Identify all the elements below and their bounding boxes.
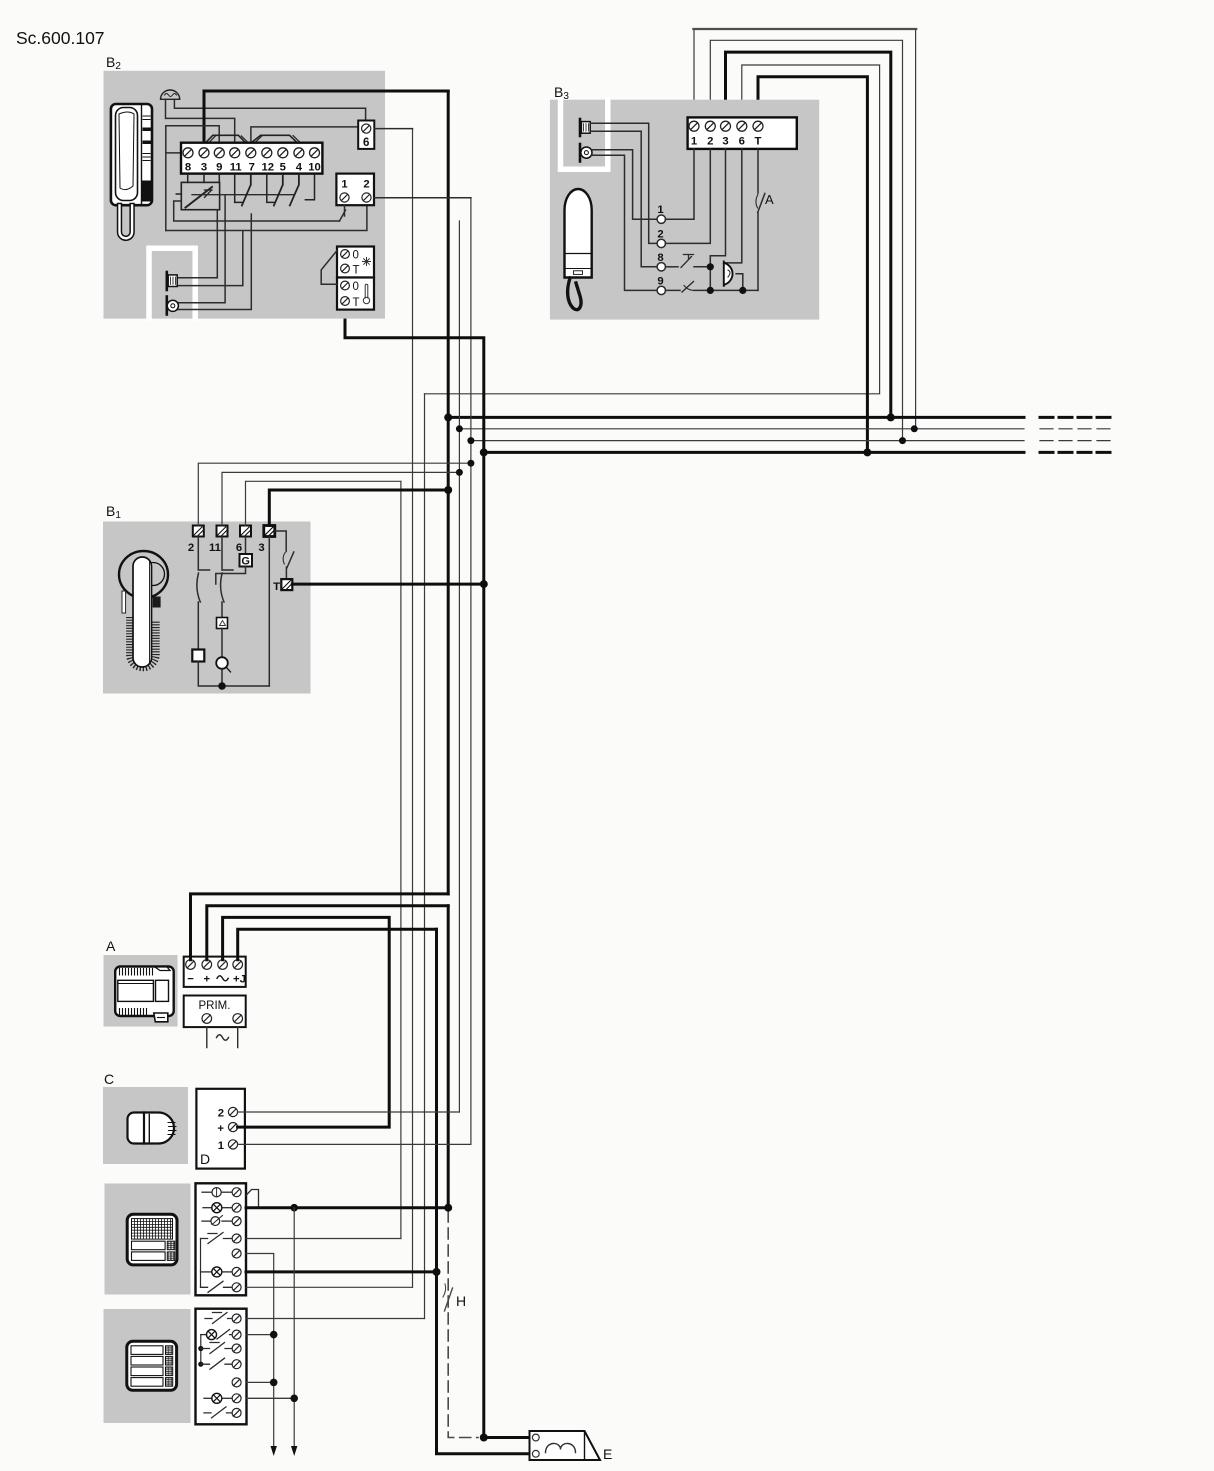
wire link from row2 node down to panel2 and arrow — [293, 1208, 295, 1447]
switch blade 4 of B1 — [286, 552, 293, 579]
strip screws — [183, 148, 320, 158]
wire D terminal 2 to riser — [238, 1111, 460, 1113]
svg-text:2: 2 — [707, 136, 713, 148]
wire 1-2 box terminal 2 right to riser — [374, 197, 471, 199]
svg-text:3: 3 — [201, 162, 207, 174]
switch H blade on dashed wire — [445, 1288, 453, 1311]
microphone box of B1 — [217, 618, 228, 629]
wire common rail from contact box to switch under 1-2 box — [174, 201, 340, 221]
link hump over strip terminals 3..11 — [206, 135, 246, 143]
wire from contact box bottom down to connector plug (square) top — [177, 210, 217, 278]
buzzer in B2 — [161, 90, 180, 99]
thick wire B1 T to lock-release riser — [292, 583, 484, 586]
wire B1 terminal2 up to riser — [198, 463, 471, 525]
screws of panel 1 rows — [232, 1188, 241, 1292]
connector plug (square) in B3 — [580, 119, 590, 136]
svg-text:T: T — [755, 136, 762, 148]
PRIM primary box of A — [184, 996, 246, 1028]
svg-text:3: 3 — [258, 542, 264, 554]
entrance panel 2 block background — [104, 1309, 191, 1423]
wire panel1 row4 to riser — [246, 1238, 401, 1240]
svg-text:+: + — [203, 974, 210, 986]
call button square of B1 — [192, 650, 204, 662]
1-2 terminal box of B2 — [336, 174, 374, 206]
wire panel2 row5 to link wire — [247, 1381, 274, 1383]
svg-text:11: 11 — [230, 162, 242, 174]
node dot dashed H joins lock wire — [480, 1434, 488, 1442]
wire B1 terminal11 up to riser — [222, 472, 459, 525]
handset cord of B2 phone — [120, 206, 133, 239]
right branch of B1: terminal 3 down — [268, 537, 270, 687]
middle contact branch of B1 (terminal 11) — [221, 537, 233, 618]
contact pair under terminals 11-7 — [235, 175, 251, 206]
lock release net (thick): B2 0/T box down to lock E upper terminal — [345, 310, 530, 1438]
node dot bottom rail of B1 — [218, 682, 226, 690]
row2 lamp+switch symbol with link rail — [200, 1335, 202, 1365]
entrance panel 1 block background — [105, 1184, 191, 1295]
row1 microphone symbol — [202, 1191, 212, 1193]
wire side rail to square connector bottom and 1-2 box terminal 2 — [166, 205, 367, 285]
svg-text:8: 8 — [185, 162, 191, 174]
node dot terminal3 riser — [444, 486, 452, 494]
entrance panel 1 icon — [127, 1214, 177, 1265]
wire B3 terminal2 to riser bus line 3 — [710, 40, 902, 440]
intercom phone B1 block background — [103, 522, 311, 694]
switch blade from common rail to 1-2 box terminal 1 — [340, 205, 346, 221]
wire square connector top to contact 2 — [590, 123, 657, 243]
svg-text:0: 0 — [353, 250, 359, 262]
svg-text:1: 1 — [218, 1140, 224, 1152]
node bus2 left end — [456, 425, 463, 432]
entrance panel 2 terminal box — [196, 1309, 247, 1425]
door station B3 block background — [550, 100, 819, 320]
wire panel1 row5 down to panel2 and arrow — [246, 1254, 274, 1448]
svg-text:6: 6 — [739, 136, 745, 148]
wire panel1 row7 to riser — [246, 1286, 413, 1288]
vertical from B2 wire y221 down to relay D terminal 2 — [458, 221, 460, 1112]
svg-text:E: E — [603, 1446, 612, 1462]
arrow continuation down-right — [291, 1446, 297, 1456]
wire B1 terminal6 up to riser corner — [246, 481, 401, 525]
lamp symbol beside upper 0/T box — [363, 258, 371, 266]
wire A terminal ac to relay D plus (thick) — [223, 917, 390, 1127]
node dot contact8/terminal3 — [707, 263, 714, 270]
wire strip terminal 7 up and right to 6-terminal box — [251, 127, 358, 143]
row7 switch symbol — [204, 1407, 232, 1418]
wire strip left row (terminal 8) to side rail — [166, 152, 181, 154]
row4 switch symbol with link rail — [200, 1239, 202, 1288]
svg-text:G: G — [241, 556, 250, 568]
svg-text:T: T — [273, 581, 280, 593]
switch A arc mark — [756, 195, 758, 209]
power supply unit icon — [115, 967, 174, 1022]
svg-text:2: 2 — [363, 179, 369, 191]
node bus4/B3-T — [863, 448, 871, 456]
relay D terminal box — [196, 1089, 245, 1169]
row4 switch symbol — [198, 1362, 203, 1367]
row6 lamp symbol — [201, 1271, 212, 1273]
dashed optional wire H from node at panel row 2 down to lock E — [448, 1211, 478, 1438]
node dot T riser — [480, 580, 488, 588]
svg-text:A: A — [106, 938, 116, 954]
wire A terminal plus to lower riser (thick) — [207, 906, 448, 960]
wire net 3 (thick): B2 terminal 3 riser down to A terminal minus — [447, 91, 450, 894]
wire B3 terminal6 over top, down and left along y=393.8 — [425, 65, 880, 394]
vertical from B2 1-2 box terminal 2 down to relay D terminal 1 — [470, 198, 472, 1145]
node dot row5/link — [270, 1379, 278, 1387]
arrow continuation down-left — [271, 1446, 277, 1456]
hatched terminal 2 of B1 — [193, 526, 204, 537]
wire 6-terminal box right to riser — [374, 128, 412, 130]
wire panel2 row2 to link wire — [247, 1334, 274, 1336]
movable-contact rail under strip — [192, 194, 294, 196]
connector jack (circle) in B2 — [167, 297, 179, 315]
row1 switch symbol — [205, 1313, 232, 1324]
earpiece lamp circle of B1 — [216, 657, 228, 669]
wire buzzer right to 6-terminal box top — [174, 99, 365, 120]
entrance panel 1 terminal box — [196, 1183, 247, 1295]
svg-text:A: A — [765, 192, 774, 207]
node contact 9 with switch of B3 — [657, 276, 758, 295]
riser bus line 4 continuation dashes — [1040, 451, 1113, 454]
svg-text:10: 10 — [308, 162, 321, 174]
wire buzzer to contact 9 line — [736, 274, 743, 291]
node bus1/B3-3 — [887, 413, 895, 421]
lock coil symbol — [546, 1443, 576, 1452]
wire +J supply: A terminal +J down to lock E lower terminal (thick) — [437, 929, 531, 1454]
wire B3 terminal1 to riser bus line 2 — [694, 29, 916, 428]
node dot contact9/terminal3 — [707, 287, 714, 294]
wire A terminal plus down to panel 1 row 2 (thick) — [447, 906, 450, 1208]
power supply A block background — [104, 955, 178, 1027]
wire D terminal 1 to riser — [238, 1143, 471, 1145]
svg-text:1: 1 — [691, 136, 697, 148]
wire panel2 row1 to riser — [247, 1318, 425, 1320]
monitor station B2 block background — [104, 71, 386, 319]
node contact 8 with switch of B3 — [657, 252, 710, 271]
wire strip terminal 9 up, left and down the side — [166, 126, 219, 231]
wire panel1 row2 to supply riser (thick) — [246, 1206, 448, 1209]
secondary terminal box of A — [184, 957, 246, 987]
wire panel2 row6 to link wire — [247, 1397, 295, 1399]
svg-text:C: C — [104, 1071, 114, 1087]
wire circle connector bottom to contact 9 — [592, 155, 657, 290]
svg-text:2: 2 — [188, 542, 194, 554]
node bus1/net3 — [444, 413, 452, 421]
coiled cord of B1 handset — [131, 617, 156, 667]
svg-text:1: 1 — [341, 179, 347, 191]
left contact branch of B1 (terminal 2) — [197, 537, 210, 650]
wall handset icon in B2 — [111, 104, 152, 238]
wire A terminal +J to lock riser (thick) — [238, 929, 437, 959]
wire B3 terminalT to riser bus line 4 (thick) — [758, 77, 867, 453]
relay module icon in C — [128, 1113, 177, 1144]
svg-text:0: 0 — [353, 281, 359, 293]
entrance panel 2 icon (4 call buttons) — [127, 1341, 177, 1390]
node dot row6/+J — [433, 1268, 441, 1276]
wire buzzer left to strip terminal 11 — [166, 99, 235, 143]
svg-text:9: 9 — [216, 162, 222, 174]
row3 speaker symbol — [202, 1220, 211, 1222]
wire B3 terminal T down with switch A to contact 9 line — [758, 149, 765, 291]
riser bus line 3 — [471, 440, 1024, 442]
node dot terminal11 riser — [456, 469, 463, 476]
svg-text:T: T — [353, 265, 360, 277]
row2 lamp symbol — [203, 1207, 212, 1209]
svg-text:6: 6 — [363, 137, 369, 149]
riser bus line 2 continuation dashes — [1040, 428, 1113, 430]
riser bus line 3 continuation dashes — [1040, 440, 1113, 442]
svg-text:6: 6 — [236, 542, 242, 554]
changeover hook between 0/T boxes — [321, 251, 337, 285]
row3 switch symbol — [198, 1346, 203, 1351]
svg-text:7: 7 — [249, 162, 255, 174]
wire circle connector top to contact 1 — [592, 150, 657, 219]
contact pair under terminals 4-10 — [290, 175, 315, 206]
wire B3 terminal 3 to contacts 8/9 — [710, 149, 725, 291]
row7 switch symbol — [201, 1281, 233, 1292]
wire B1 terminal3 up to riser (thick) — [269, 490, 448, 526]
svg-text:T: T — [353, 297, 360, 309]
node contact 2 of B3 — [657, 149, 710, 248]
wire from rail down to connector jack (circle) top — [177, 195, 225, 303]
node dot buzzer/contact9 — [739, 287, 746, 294]
svg-text:−: − — [187, 974, 194, 986]
node bus3/B3-2 — [899, 437, 906, 444]
hatched terminal T of B1 — [281, 579, 292, 590]
terminal strip of B3 — [688, 117, 797, 148]
handset icon of B1 — [119, 551, 168, 667]
svg-text:+: + — [217, 1123, 224, 1135]
svg-text:H: H — [456, 1293, 466, 1309]
row6 lamp symbol — [204, 1397, 212, 1399]
hatched terminal 3 of B1 (thick) — [264, 526, 275, 537]
row1 jumper hook to row2 — [246, 1190, 259, 1208]
vertical from B1 terminal 6 down to entrance panel 1 row 4 — [400, 481, 402, 1238]
connector plug (square) in B2 — [167, 272, 177, 290]
terminal strip of B2 — [181, 143, 322, 174]
mains leads below PRIM — [207, 1027, 238, 1047]
wire from contact under 7 down to connector jack (circle) bottom — [177, 214, 251, 310]
0/T switch box lower (heating) of B2 — [337, 278, 374, 310]
link hump over strip terminals 7..4 — [251, 135, 297, 143]
node dot row2/link — [270, 1331, 278, 1339]
node bus4 left corner — [480, 448, 488, 456]
riser bus line 2 — [459, 428, 1024, 430]
wire terminal 3 right to T contact — [275, 531, 286, 552]
svg-text:5: 5 — [280, 162, 286, 174]
vertical from B3 terminal6 line down to entrance panel 2 row 1 — [424, 394, 426, 1319]
node bus3 left end — [467, 437, 474, 444]
handset hook loop — [568, 278, 581, 310]
white channel mark in B3 — [561, 100, 608, 170]
relay C block background — [103, 1087, 188, 1164]
svg-text:PRIM.: PRIM. — [199, 1000, 231, 1012]
0/T switch box upper (light) of B2 — [337, 247, 374, 278]
svg-text:1: 1 — [657, 204, 663, 216]
svg-text:12: 12 — [262, 162, 275, 174]
svg-text:+J: +J — [233, 974, 246, 986]
svg-text:Sc.600.107: Sc.600.107 — [16, 28, 105, 48]
6-terminal box of B2 — [358, 121, 374, 149]
hatched terminal 11 of B1 — [217, 526, 228, 537]
node bus2/B3-1 — [911, 425, 918, 432]
node contact 1 of B3 — [657, 149, 694, 224]
riser bus line 4 (thick) — [484, 451, 1024, 454]
screws of panel 2 rows — [232, 1314, 241, 1417]
riser bus line 1 (thick) — [448, 416, 1024, 419]
white channel mark in B2 — [149, 248, 195, 318]
svg-text:4: 4 — [296, 162, 303, 174]
svg-text:D: D — [200, 1151, 210, 1167]
wire square connector bottom to contact 8 — [590, 131, 657, 266]
svg-text:11: 11 — [209, 542, 221, 554]
riser bus line 1 continuation dashes — [1040, 416, 1113, 419]
thermometer symbol beside lower 0/T box — [363, 284, 369, 304]
svg-text:3: 3 — [722, 136, 728, 148]
lock release E body — [530, 1431, 601, 1460]
G generator box of B1 — [245, 537, 247, 555]
node dot terminal2 riser — [467, 460, 474, 467]
wire B3 terminal3 to riser bus line 1 (thick) — [726, 52, 891, 417]
node dot row6/link — [290, 1395, 298, 1403]
wire D terminal + to A ac riser (thick stub) — [238, 1126, 245, 1129]
contact pair under terminals 12-5 — [267, 175, 283, 206]
node dots on row2 wire — [290, 1204, 298, 1212]
hanging handset icon of B3 — [565, 189, 592, 310]
svg-text:2: 2 — [218, 1108, 224, 1120]
wire A terminal minus to net3 riser (thick) — [191, 894, 449, 960]
hatched terminal 6 of B1 — [240, 526, 251, 537]
buzzer of B3 — [724, 262, 733, 286]
connector jack (circle) in B3 — [580, 144, 592, 162]
thick wire B2 strip terminal 3 up and over to riser — [204, 91, 448, 143]
wire panel1 row6 to +J riser (thick) — [246, 1270, 437, 1273]
vertical from B2 6-terminal down to entrance panel 1 row 7 — [412, 129, 414, 1288]
changeover contact box under terminals 8-3-9 — [176, 175, 219, 210]
wire B3 terminal 6 down to buzzer — [724, 149, 742, 263]
lock terminals — [532, 1434, 539, 1441]
